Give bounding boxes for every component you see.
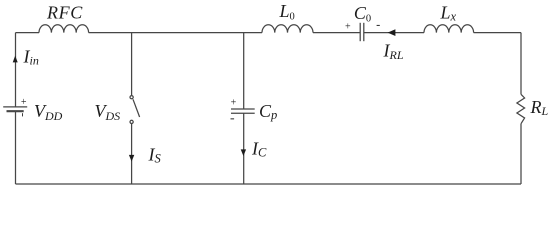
minus mark Cp	[231, 118, 235, 119]
svg-text:VDS: VDS	[95, 101, 121, 123]
wire C0 to Lx (carries IRL arrow)	[364, 32, 424, 34]
svg-text:Cp: Cp	[259, 101, 277, 122]
capacitor C0	[360, 23, 364, 41]
svg-text:IS: IS	[148, 144, 162, 165]
svg-text:IC: IC	[251, 139, 267, 160]
battery VDD	[3, 107, 27, 111]
wire left vertical lower (battery to bottom)	[15, 111, 17, 184]
svg-text:IRL: IRL	[383, 41, 404, 62]
wire Lx to top-right corner	[474, 32, 521, 34]
svg-text:C0: C0	[354, 3, 371, 24]
wire L0 to C0	[313, 32, 360, 34]
arrow IC (down)	[241, 149, 246, 156]
arrow IS (down)	[129, 155, 134, 162]
capacitor Cp	[231, 109, 255, 113]
svg-text:Iin: Iin	[23, 46, 39, 67]
wire right vertical upper	[520, 33, 522, 95]
resistor RL	[517, 94, 525, 123]
wire Cp branch upper	[243, 33, 245, 109]
wire left vertical upper (to battery)	[15, 33, 17, 107]
wire Cp branch lower (carries IC arrow)	[243, 113, 245, 184]
wire switch branch lower (carries IS arrow)	[131, 124, 133, 184]
svg-text:+: +	[230, 98, 237, 109]
svg-text:RL: RL	[530, 97, 549, 118]
inductor Lx	[424, 25, 474, 33]
wire switch branch upper	[131, 33, 133, 96]
inductor L0	[262, 25, 313, 33]
wire top middle (RFC to L0, through switch node and Cp node)	[89, 32, 262, 34]
svg-text:RFC: RFC	[46, 3, 83, 23]
svg-text:+: +	[344, 21, 351, 32]
minus mark C0	[377, 25, 380, 26]
svg-text:L0: L0	[279, 1, 295, 22]
svg-text:VDD: VDD	[34, 101, 63, 123]
arrow Iin (up)	[13, 56, 18, 63]
switch VDS	[130, 96, 140, 124]
wire right vertical lower	[520, 124, 522, 184]
inductor RFC	[39, 25, 89, 33]
wire top-left horizontal	[16, 32, 40, 34]
arrow IRL (left)	[388, 29, 396, 36]
svg-text:Lx: Lx	[440, 2, 457, 23]
minus mark battery (vertical tick)	[22, 113, 23, 116]
svg-text:+: +	[20, 97, 27, 108]
wire bottom	[16, 183, 522, 185]
